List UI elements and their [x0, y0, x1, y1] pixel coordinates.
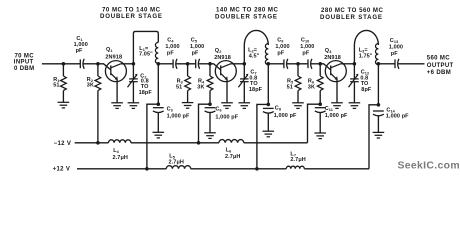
resistor R3 — [187, 64, 189, 76]
wire bias stage 2 to -12V — [199, 104, 211, 143]
wire feed stage 3 to +12V — [369, 105, 378, 169]
svg-text:DOUBLER STAGE: DOUBLER STAGE — [320, 14, 383, 21]
wire collector Q2 — [231, 63, 245, 65]
node C8 junction — [267, 103, 271, 107]
resistor R5 — [297, 64, 299, 76]
ground C2 — [128, 103, 140, 109]
svg-text:2N918: 2N918 — [214, 55, 231, 61]
title stage 1 — [100, 6, 163, 20]
node R1 top — [62, 62, 66, 66]
svg-text:51: 51 — [53, 83, 59, 89]
svg-text:1,000: 1,000 — [190, 44, 204, 50]
capacitor C4 — [171, 59, 178, 69]
svg-text:pF: pF — [302, 51, 309, 57]
capacitor C1 — [78, 59, 85, 69]
wire C4 to C5 — [178, 63, 195, 65]
tank 2 arch with inductor L2 — [244, 30, 268, 63]
resistor R2 — [97, 64, 99, 76]
node stage2 feed on +12V rail — [255, 167, 259, 171]
svg-text:8pF: 8pF — [361, 87, 372, 93]
capacitor C7 variable — [243, 64, 245, 79]
node R5 top — [296, 62, 300, 66]
inductor L6 — [219, 140, 244, 143]
inductor L5 — [166, 166, 190, 169]
node R3 top — [186, 62, 190, 66]
svg-text:18pF: 18pF — [139, 90, 153, 96]
inductor L7 — [286, 166, 304, 169]
node R6 top — [318, 62, 322, 66]
-12V rail wire — [75, 142, 109, 144]
svg-text:INPUT: INPUT — [14, 60, 34, 66]
svg-text:2N918: 2N918 — [324, 55, 341, 61]
title stage 3 — [320, 7, 384, 21]
node L3 bottom signal — [377, 62, 381, 66]
node C11 junction — [318, 102, 322, 106]
resistor R4 — [209, 64, 211, 76]
svg-text:560 MC: 560 MC — [427, 55, 450, 61]
wire feed stage 2 to +12V — [257, 104, 268, 168]
+12V rail wire middle — [191, 168, 287, 170]
node L2 bottom signal — [267, 62, 271, 66]
svg-text:pF: pF — [76, 48, 83, 54]
svg-text:1,000: 1,000 — [300, 44, 314, 50]
+12V rail label — [53, 167, 71, 173]
svg-text:DOUBLER STAGE: DOUBLER STAGE — [100, 13, 163, 20]
svg-text:4.5": 4.5" — [249, 53, 260, 59]
node R2 top — [96, 62, 100, 66]
wire collector Q3 — [341, 63, 355, 65]
svg-text:1,000: 1,000 — [165, 44, 179, 50]
ground R5 — [292, 103, 304, 109]
-12V rail wire middle — [131, 142, 219, 144]
svg-text:1,000 pF: 1,000 pF — [274, 113, 297, 119]
node stage1 feed on +12V rail — [145, 167, 149, 171]
capacitor C6 bypass — [205, 108, 216, 113]
svg-text:3K: 3K — [197, 84, 204, 90]
tank 3 arch with inductor L3 — [354, 30, 378, 63]
transistor Q1 — [105, 61, 126, 82]
wire collector Q1 — [121, 63, 134, 65]
svg-text:pF: pF — [391, 51, 398, 57]
wire C10 to Q3 base — [313, 63, 321, 65]
node L1 bottom signal — [157, 62, 161, 66]
wire L3 to C13 — [378, 63, 393, 65]
node C6 junction — [208, 102, 212, 106]
svg-text:2.7μH: 2.7μH — [290, 157, 305, 163]
svg-text:1,000: 1,000 — [389, 45, 403, 51]
capacitor C8 bypass — [263, 108, 274, 113]
ground C7 — [239, 103, 251, 109]
transistor Q3 — [325, 61, 346, 82]
svg-text:pF: pF — [192, 51, 199, 57]
wire emitter Q2 — [226, 80, 228, 103]
input label 70 MC INPUT 0 DBM — [14, 53, 35, 72]
-12V rail label — [54, 141, 72, 147]
ground Q3 emitter — [331, 103, 343, 109]
svg-text:pF: pF — [167, 51, 174, 57]
ground C6 — [204, 133, 216, 139]
wire emitter Q3 — [336, 80, 338, 103]
tank 1 box with inductor L1 — [133, 31, 158, 63]
ground C8 — [263, 131, 275, 137]
+12V rail wire right — [304, 168, 369, 170]
capacitor C12 variable — [353, 64, 355, 79]
node R4 top — [208, 62, 212, 66]
resistor R1 — [62, 64, 64, 76]
wire bias stage 3 to -12V — [308, 104, 321, 143]
wire L1 to C4 — [158, 63, 171, 65]
inductor L4 — [109, 140, 131, 143]
wire C1 to base node — [85, 63, 98, 65]
node Q2 collector — [243, 62, 247, 66]
svg-text:1,000 pF: 1,000 pF — [215, 114, 238, 120]
ground Q1 emitter — [111, 103, 123, 109]
svg-text:7.05": 7.05" — [139, 51, 153, 57]
capacitor C2 variable — [132, 64, 134, 79]
svg-text:pF: pF — [277, 51, 284, 57]
wire base Q2 — [210, 64, 221, 70]
svg-text:1,000: 1,000 — [275, 44, 289, 50]
svg-text:51: 51 — [287, 84, 293, 90]
capacitor C9 — [282, 59, 289, 69]
svg-text:OUTPUT: OUTPUT — [427, 63, 454, 69]
wire input — [42, 63, 79, 65]
ground C14 — [373, 132, 385, 138]
svg-text:DOUBLER STAGE: DOUBLER STAGE — [215, 13, 278, 20]
wire output — [400, 63, 425, 65]
svg-text:70 MC: 70 MC — [15, 53, 35, 59]
capacitor C5 — [194, 59, 201, 69]
svg-text:2.7μH: 2.7μH — [225, 154, 240, 160]
transistor Q2 — [215, 61, 236, 82]
svg-text:+12 V: +12 V — [53, 167, 71, 173]
svg-text:+6 DBM: +6 DBM — [427, 70, 451, 76]
capacitor C13 — [393, 59, 400, 69]
ground R1 — [58, 102, 70, 108]
svg-text:2N918: 2N918 — [105, 55, 122, 61]
svg-text:2.7μH: 2.7μH — [113, 155, 128, 161]
svg-text:3K: 3K — [308, 84, 315, 90]
svg-text:1,000 pF: 1,000 pF — [325, 113, 348, 119]
svg-text:3K: 3K — [87, 83, 94, 89]
wire C5 to Q2 base — [200, 63, 210, 65]
ground C3 — [153, 132, 165, 138]
output label 560 MC OUTPUT +6 DBM — [427, 55, 454, 76]
svg-text:0 DBM: 0 DBM — [14, 66, 34, 72]
capacitor C14 bypass — [373, 111, 384, 116]
ground C11 — [314, 133, 326, 139]
ground Q2 emitter — [221, 103, 233, 109]
svg-text:1,000 pF: 1,000 pF — [167, 114, 190, 120]
+12V rail wire — [77, 168, 166, 170]
wire emitter Q1 — [116, 80, 118, 103]
capacitor C3 bypass — [153, 108, 164, 113]
wire feed stage 1 to +12V — [147, 104, 158, 169]
capacitor C11 bypass — [315, 108, 326, 113]
capacitor C10 — [306, 59, 313, 69]
title stage 2 — [215, 7, 279, 21]
node Q3 collector — [353, 62, 357, 66]
node C14 junction — [377, 103, 381, 107]
wire C9 to C10 — [288, 63, 306, 65]
node stage2 bias on -12V rail — [197, 141, 201, 145]
svg-text:51: 51 — [176, 84, 182, 90]
-12V rail wire right — [244, 142, 308, 144]
node R2 bottom on -12V rail — [96, 141, 100, 145]
wire L2 to C9 — [268, 63, 282, 65]
svg-text:1,000 pF: 1,000 pF — [386, 114, 409, 120]
node C3 junction — [157, 102, 161, 106]
ground C12 — [349, 103, 361, 109]
svg-text:18pF: 18pF — [249, 87, 263, 93]
wire base Q1 — [98, 64, 111, 70]
svg-text:1.75": 1.75" — [359, 53, 373, 59]
watermark SeekIC.com — [398, 161, 460, 172]
node Q1 collector — [132, 62, 136, 66]
resistor R6 — [319, 64, 321, 76]
svg-text:SeekIC.com: SeekIC.com — [398, 161, 460, 172]
ground R3 — [182, 103, 194, 109]
svg-text:2.7μH: 2.7μH — [169, 160, 184, 166]
svg-text:−12 V: −12 V — [54, 141, 72, 147]
wire base Q3 — [320, 64, 331, 70]
